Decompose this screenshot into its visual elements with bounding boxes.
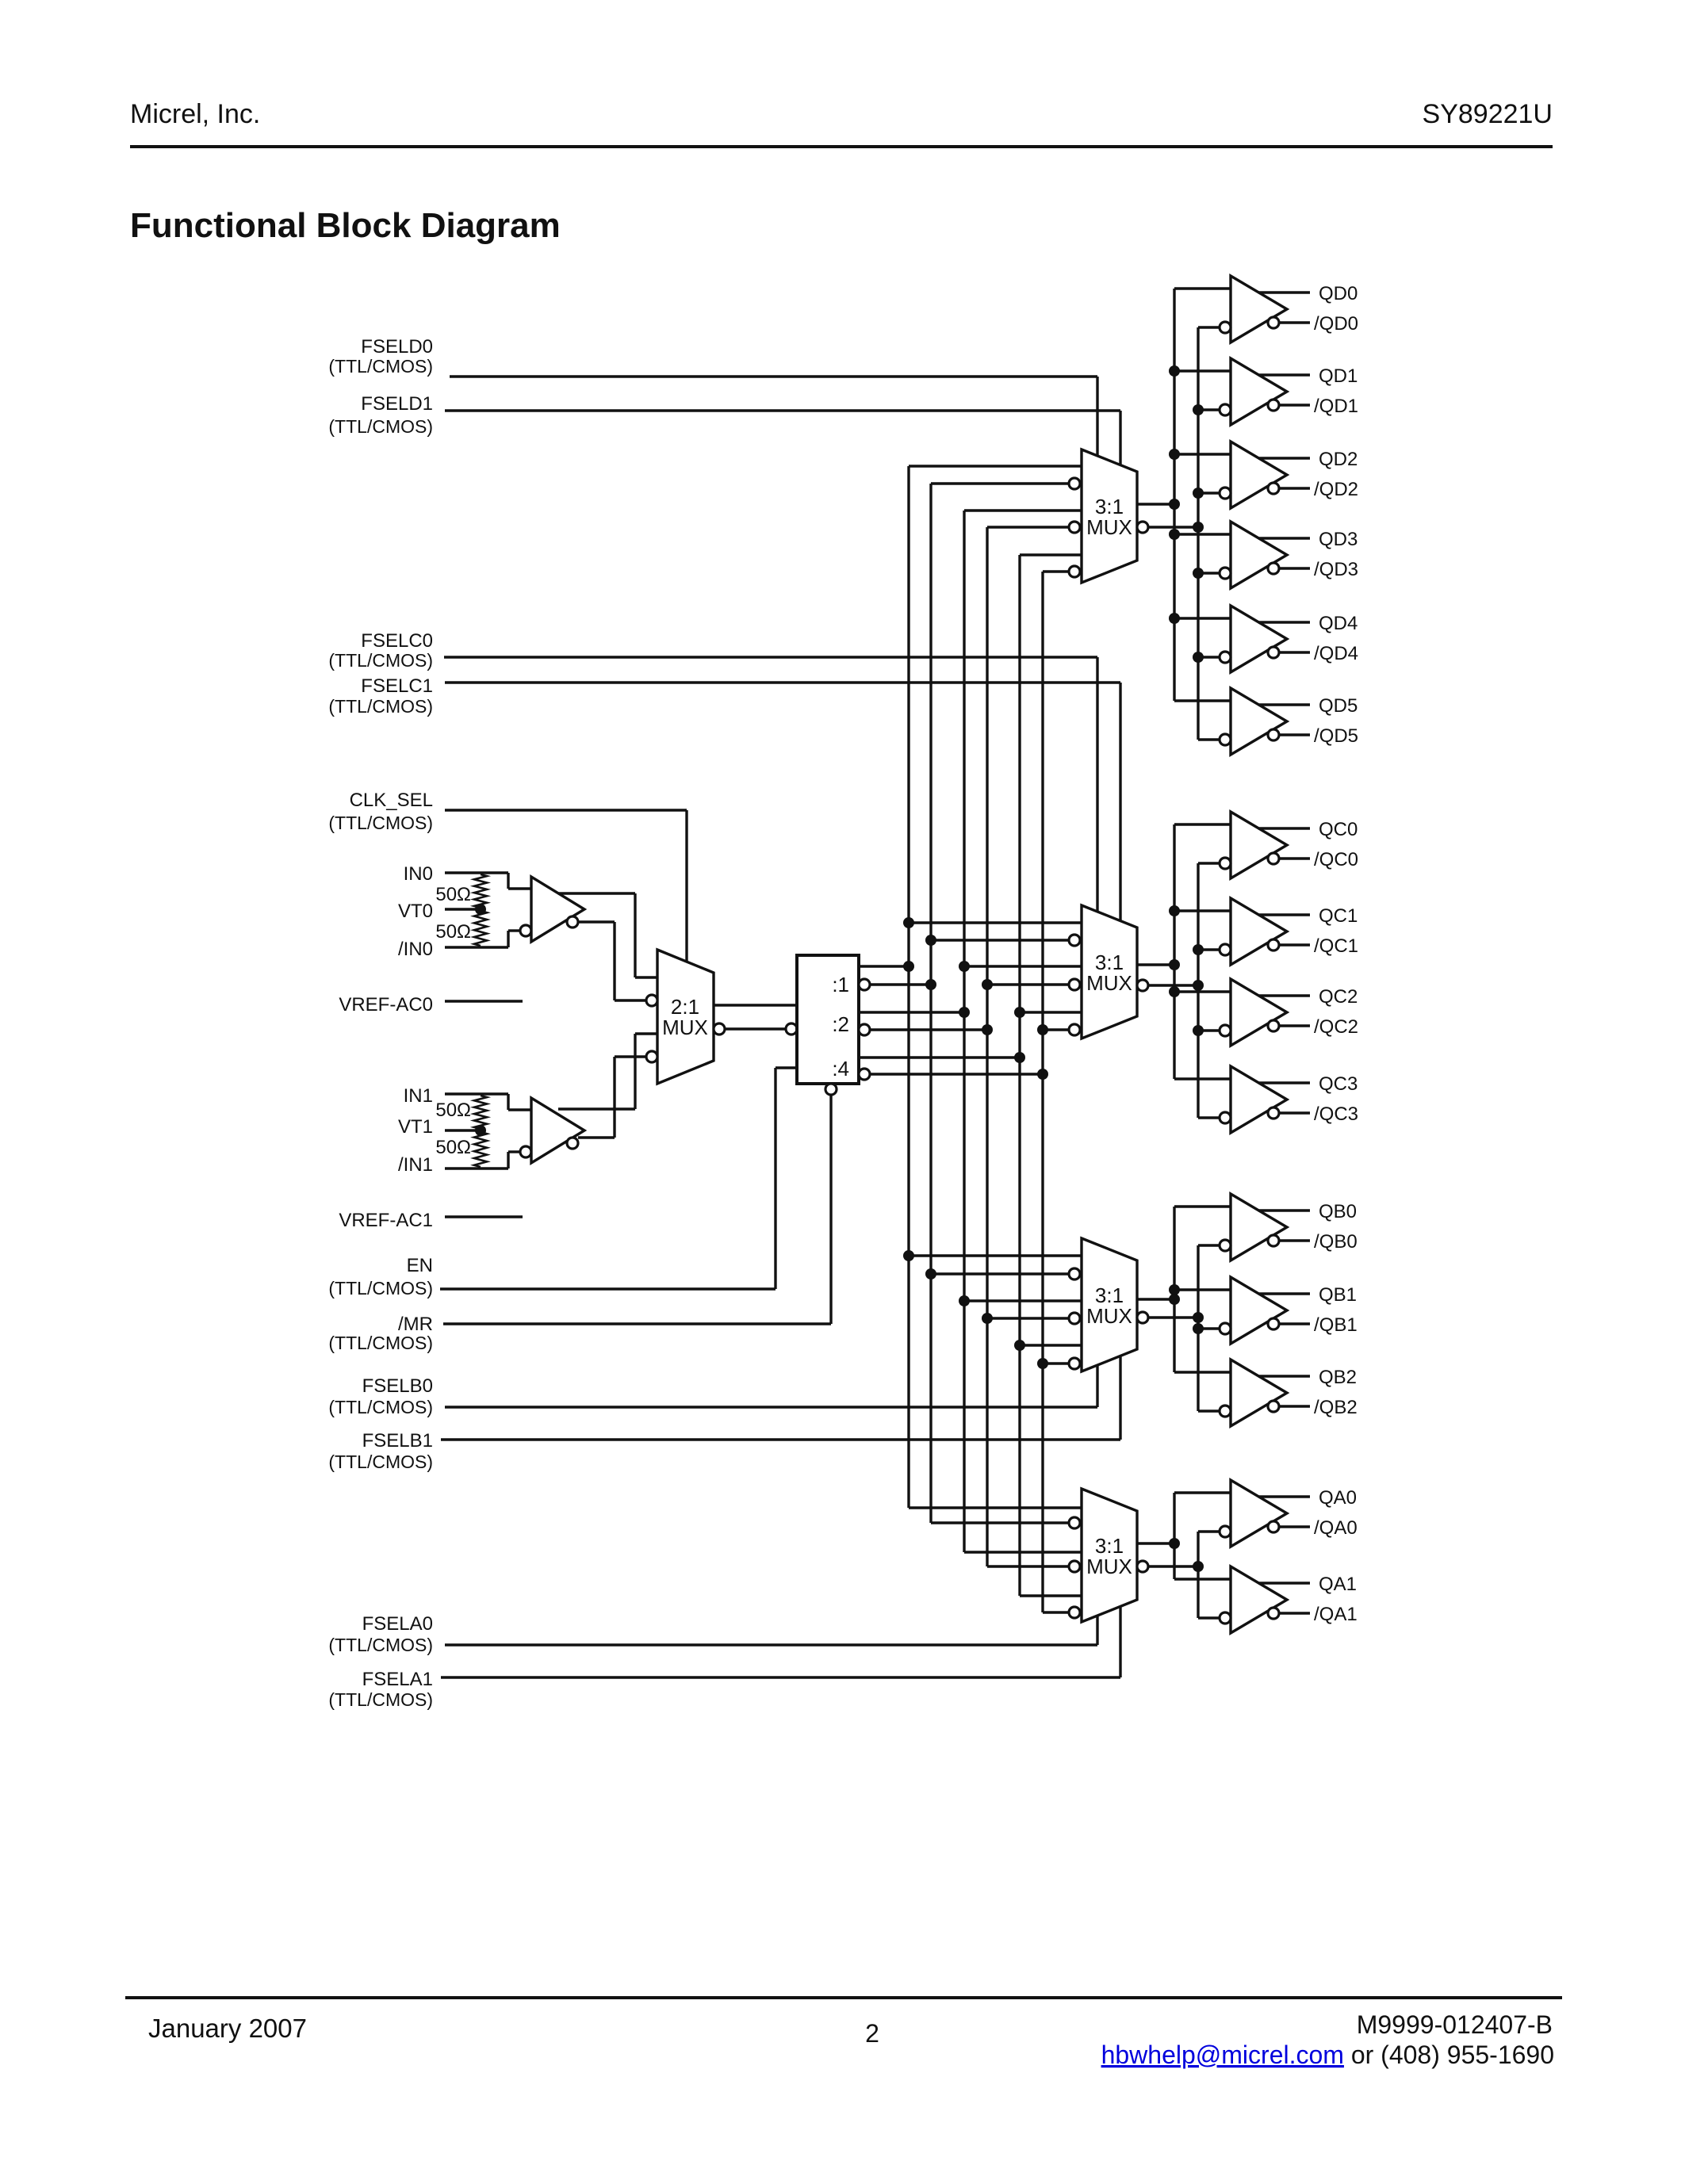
svg-text:VT0: VT0 xyxy=(398,901,433,922)
svg-text:/QC1: /QC1 xyxy=(1314,935,1358,957)
svg-text:(TTL/CMOS): (TTL/CMOS) xyxy=(328,1452,433,1472)
svg-text:/QC2: /QC2 xyxy=(1314,1016,1358,1038)
svg-text:/QA0: /QA0 xyxy=(1314,1517,1358,1539)
svg-text:/QD1: /QD1 xyxy=(1314,396,1358,417)
svg-text:QC2: QC2 xyxy=(1319,986,1358,1008)
svg-text:(TTL/CMOS): (TTL/CMOS) xyxy=(328,1689,433,1710)
svg-text:QD3: QD3 xyxy=(1319,529,1358,550)
svg-text:(TTL/CMOS): (TTL/CMOS) xyxy=(328,813,433,833)
svg-text:50Ω: 50Ω xyxy=(435,1137,471,1158)
svg-text:MUX: MUX xyxy=(1086,1304,1132,1328)
svg-text:(TTL/CMOS): (TTL/CMOS) xyxy=(328,1278,433,1299)
svg-text:QD2: QD2 xyxy=(1319,449,1358,470)
svg-text:/IN1: /IN1 xyxy=(398,1154,433,1176)
svg-text:/QB0: /QB0 xyxy=(1314,1231,1358,1253)
svg-text:FSELB0: FSELB0 xyxy=(362,1375,433,1397)
svg-text:MUX: MUX xyxy=(1086,1555,1132,1578)
svg-text:FSELD0: FSELD0 xyxy=(361,336,433,358)
svg-text:VREF-AC0: VREF-AC0 xyxy=(339,994,433,1016)
svg-text:FSELC0: FSELC0 xyxy=(361,630,433,652)
svg-text:QB0: QB0 xyxy=(1319,1201,1357,1222)
svg-text::4: :4 xyxy=(832,1057,849,1081)
svg-text:(TTL/CMOS): (TTL/CMOS) xyxy=(328,1635,433,1655)
svg-text:(TTL/CMOS): (TTL/CMOS) xyxy=(328,356,433,377)
svg-text:/QB2: /QB2 xyxy=(1314,1397,1358,1418)
svg-text:VREF-AC1: VREF-AC1 xyxy=(339,1210,433,1231)
svg-text:QC3: QC3 xyxy=(1319,1073,1358,1095)
svg-text:FSELD1: FSELD1 xyxy=(361,393,433,415)
svg-text:QA0: QA0 xyxy=(1319,1487,1357,1509)
svg-text:hbwhelp@micrel.com or (408) 95: hbwhelp@micrel.com or (408) 955-1690 xyxy=(1101,2041,1554,2069)
svg-text:QC0: QC0 xyxy=(1319,819,1358,840)
svg-text:2: 2 xyxy=(865,2019,879,2048)
svg-text:FSELC1: FSELC1 xyxy=(361,675,433,697)
svg-text::2: :2 xyxy=(832,1012,849,1036)
svg-text:EN: EN xyxy=(407,1255,433,1276)
svg-text:MUX: MUX xyxy=(1086,515,1132,539)
svg-text:QD4: QD4 xyxy=(1319,613,1358,634)
svg-text::1: :1 xyxy=(832,973,849,996)
svg-text:50Ω: 50Ω xyxy=(435,884,471,905)
svg-text:/IN0: /IN0 xyxy=(398,939,433,960)
svg-text:FSELA1: FSELA1 xyxy=(362,1669,433,1690)
svg-text:FSELA0: FSELA0 xyxy=(362,1613,433,1635)
svg-text:VT1: VT1 xyxy=(398,1116,433,1138)
svg-text:MUX: MUX xyxy=(662,1016,708,1039)
svg-text:50Ω: 50Ω xyxy=(435,1100,471,1121)
svg-text:(TTL/CMOS): (TTL/CMOS) xyxy=(328,650,433,671)
svg-text:QD5: QD5 xyxy=(1319,695,1358,717)
svg-text:/QB1: /QB1 xyxy=(1314,1314,1358,1336)
svg-text:50Ω: 50Ω xyxy=(435,921,471,943)
svg-text:/QC3: /QC3 xyxy=(1314,1103,1358,1125)
svg-text:Micrel, Inc.: Micrel, Inc. xyxy=(130,99,260,129)
svg-text:/QA1: /QA1 xyxy=(1314,1604,1358,1625)
svg-text:(TTL/CMOS): (TTL/CMOS) xyxy=(328,416,433,437)
svg-text:(TTL/CMOS): (TTL/CMOS) xyxy=(328,1397,433,1417)
svg-text:/QD3: /QD3 xyxy=(1314,559,1358,580)
svg-text:QC1: QC1 xyxy=(1319,905,1358,927)
svg-text:(TTL/CMOS): (TTL/CMOS) xyxy=(328,696,433,717)
svg-text:QA1: QA1 xyxy=(1319,1574,1357,1595)
svg-text:M9999-012407-B: M9999-012407-B xyxy=(1357,2010,1553,2039)
svg-text:FSELB1: FSELB1 xyxy=(362,1430,433,1452)
svg-text:/QD5: /QD5 xyxy=(1314,725,1358,747)
svg-text:/MR: /MR xyxy=(398,1314,433,1335)
svg-text:IN0: IN0 xyxy=(404,863,433,885)
svg-text:January 2007: January 2007 xyxy=(148,2014,307,2043)
svg-text:(TTL/CMOS): (TTL/CMOS) xyxy=(328,1333,433,1353)
svg-text:IN1: IN1 xyxy=(404,1085,433,1107)
svg-text:SY89221U: SY89221U xyxy=(1423,99,1553,129)
svg-text:QB1: QB1 xyxy=(1319,1284,1357,1306)
svg-text:QB2: QB2 xyxy=(1319,1367,1357,1388)
svg-text:MUX: MUX xyxy=(1086,971,1132,995)
svg-text:CLK_SEL: CLK_SEL xyxy=(350,790,433,811)
svg-text:/QD0: /QD0 xyxy=(1314,313,1358,335)
svg-text:/QD2: /QD2 xyxy=(1314,479,1358,500)
svg-text:Functional Block Diagram: Functional Block Diagram xyxy=(130,206,561,245)
svg-text:QD0: QD0 xyxy=(1319,283,1358,304)
svg-text:QD1: QD1 xyxy=(1319,365,1358,387)
svg-text:/QC0: /QC0 xyxy=(1314,849,1358,870)
svg-text:/QD4: /QD4 xyxy=(1314,643,1358,664)
